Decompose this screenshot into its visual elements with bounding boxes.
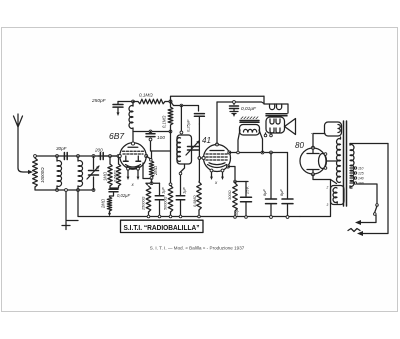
- wire bottom of tank circuits: [35, 187, 94, 190]
- tube U1 diode anodes: [126, 156, 139, 161]
- svg-text:1μF: 1μF: [182, 187, 187, 194]
- wire 41 plate to bus: [216, 102, 218, 144]
- filter choke L5 winding: [240, 125, 260, 136]
- wire 80 anode to transformer: [313, 134, 325, 148]
- resistor R3 0,5MΩ: [118, 156, 120, 164]
- plate node wire: [134, 131, 171, 133]
- variable capacitor CV2: [188, 147, 199, 151]
- svg-text:2: 2: [326, 186, 329, 190]
- resistor R5 0,1MΩ horizontal: [138, 99, 165, 104]
- T1 winding mid: [337, 139, 341, 183]
- tube U3 anode top: [307, 150, 319, 154]
- svg-text:1MΩ: 1MΩ: [103, 171, 108, 181]
- svg-text:1μF: 1μF: [161, 187, 166, 194]
- variable capacitor CV1: [93, 156, 95, 190]
- speaker secondary: [266, 117, 285, 133]
- svg-text:0,01μF: 0,01μF: [241, 106, 257, 112]
- resistor R10 0,5MΩ: [197, 182, 202, 210]
- resistor R6 2MΩ: [151, 151, 153, 161]
- capacitor C4 250pF: [117, 102, 119, 105]
- svg-text:200: 200: [94, 148, 103, 153]
- chassis + mark: [62, 222, 70, 230]
- wire filament tap: [327, 160, 338, 162]
- wire plate line of 41: [217, 102, 264, 104]
- wire choke to B+ line: [238, 130, 263, 153]
- capacitor C9 10μF 25V: [245, 182, 247, 197]
- svg-text:S. I. T. I. — Mod. « Balilla: S. I. T. I. — Mod. « Balilla » - Produzi…: [150, 246, 245, 251]
- capacitor C7 1μF: [159, 183, 161, 195]
- wire to chassis +: [66, 190, 78, 221]
- tube U1 6B7 envelope: [120, 143, 146, 169]
- grid wire of 41: [198, 124, 200, 181]
- speaker transformer core: [266, 114, 287, 116]
- capacitor C5 100: [150, 132, 152, 134]
- capacitor C12 0,01μF: [233, 102, 235, 105]
- wire bus step: [171, 96, 265, 101]
- RF choke L3: [132, 102, 134, 107]
- svg-text:0,1MΩ: 0,1MΩ: [162, 115, 167, 128]
- tube U3 pins: [312, 146, 315, 149]
- wire AF node: [146, 182, 160, 184]
- capacitor C10 8μF: [270, 153, 272, 199]
- tube U1 top cap: [132, 132, 134, 143]
- svg-text:2MΩ: 2MΩ: [101, 198, 106, 209]
- svg-text:0,25μF: 0,25μF: [186, 119, 191, 132]
- fuse: [348, 229, 360, 232]
- svg-text:125: 125: [358, 172, 364, 176]
- svg-text:S.I.T.I. “RADIOBALILLA”: S.I.T.I. “RADIOBALILLA”: [124, 225, 200, 232]
- resistor R8 25000Ω: [146, 186, 151, 212]
- tube U3 filament: [319, 154, 327, 169]
- inductor L2: [77, 156, 79, 190]
- speaker bottom wire: [266, 133, 272, 135]
- svg-text:6B7: 6B7: [109, 131, 124, 141]
- svg-text:80: 80: [295, 141, 304, 150]
- tube U1 grids: [123, 151, 144, 154]
- inductor L1: [56, 156, 58, 190]
- tube U2 pins: [216, 143, 219, 146]
- resistor R7 0,1MΩ vertical: [170, 102, 172, 108]
- svg-text:110: 110: [358, 167, 364, 171]
- svg-text:0,5MΩ: 0,5MΩ: [192, 195, 197, 207]
- inductor L4: [180, 106, 182, 133]
- T1 winding bottom: [331, 186, 345, 205]
- speaker output transformer primary: [264, 96, 288, 113]
- capacitor C2 200: [100, 153, 103, 160]
- tube U3 anode bottom: [307, 170, 319, 174]
- wire bus to transformer: [300, 180, 331, 217]
- T1 secondary winding top: [325, 122, 342, 136]
- T1 primary winding: [349, 144, 351, 146]
- top bus wire: [118, 101, 133, 103]
- resistor R2 1MΩ: [109, 156, 111, 164]
- svg-text:3: 3: [327, 203, 329, 207]
- tube U2 41 envelope: [204, 145, 231, 172]
- capacitor C8 1μF: [180, 172, 182, 195]
- svg-text:10μF: 10μF: [235, 207, 239, 216]
- switch S1: [376, 204, 379, 207]
- resistor R1 10000Ω: [33, 158, 38, 187]
- filter choke L5 core: [240, 121, 259, 123]
- tube U3 80 envelope: [300, 148, 326, 174]
- tube U1 plate: [128, 146, 138, 148]
- wire tap selector: [357, 184, 377, 204]
- svg-text:50000Ω: 50000Ω: [164, 196, 168, 210]
- mains plug arrow 1: [355, 220, 361, 225]
- svg-text:250pF: 250pF: [91, 98, 107, 104]
- antenna: [18, 127, 28, 172]
- wire mains right bus: [363, 144, 388, 234]
- wire grid node to tube: [110, 155, 120, 157]
- wire cathode loop: [143, 156, 152, 182]
- wire 80 bottom to transformer: [313, 174, 337, 183]
- svg-text:8μF: 8μF: [262, 189, 267, 196]
- bus junction dots: [147, 215, 150, 218]
- svg-text:140: 140: [358, 177, 364, 181]
- power transformer T1 core: [344, 121, 347, 206]
- tube U1 cathode: [126, 165, 141, 169]
- speaker cone: [285, 119, 296, 135]
- tube U2 plate: [210, 150, 224, 152]
- tube U1 side pins: [118, 155, 121, 158]
- wire top of tank circuits: [35, 156, 120, 158]
- svg-text:2MΩ: 2MΩ: [153, 165, 158, 176]
- tube U1 bottom pins: [127, 167, 130, 170]
- svg-text:0,5MΩ: 0,5MΩ: [113, 170, 118, 182]
- wire B+ screen line: [229, 152, 287, 154]
- resistor R11 300Ω: [234, 182, 236, 184]
- tube U2 grids: [206, 154, 228, 160]
- T1 primary taps: [354, 167, 356, 169]
- tube U2 cathode: [208, 163, 227, 168]
- wire tank bottom to bus: [78, 190, 300, 217]
- tube U2 bottom pins: [212, 172, 223, 177]
- capacitor C1 30pF: [64, 153, 67, 160]
- svg-text:0,02μF: 0,02μF: [117, 193, 130, 198]
- capacitor C11 8μF: [287, 153, 289, 199]
- title box: [121, 220, 204, 232]
- svg-text:30pF: 30pF: [56, 146, 68, 151]
- svg-text:300Ω: 300Ω: [227, 190, 232, 200]
- svg-text:41: 41: [202, 136, 211, 145]
- svg-text:25000Ω: 25000Ω: [142, 196, 146, 211]
- svg-text:25V.: 25V.: [245, 186, 250, 195]
- wire screen drop: [170, 132, 172, 184]
- mains plug arrow 2: [357, 231, 363, 236]
- svg-text:10000Ω: 10000Ω: [40, 167, 45, 183]
- svg-text:0,1MΩ: 0,1MΩ: [139, 93, 153, 98]
- svg-text:100: 100: [157, 135, 165, 141]
- capacitor C6 0,25μF: [171, 102, 199, 112]
- resistor R4 2MΩ: [109, 196, 111, 197]
- svg-text:8μF: 8μF: [279, 189, 284, 196]
- resistor R9 50000Ω: [168, 186, 173, 213]
- capacitor C3 0,02μF: [110, 186, 119, 189]
- wire 41 cathode: [228, 167, 248, 182]
